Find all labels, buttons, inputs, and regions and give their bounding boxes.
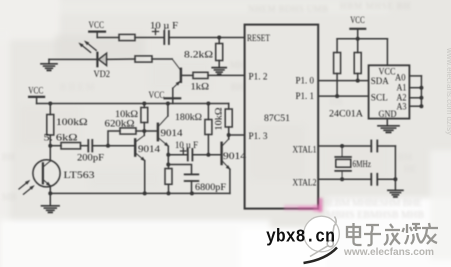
wire R1k to P1.2: [208, 74, 245, 76]
resistor R 1k: [193, 72, 208, 78]
svg-text:MH: MH: [230, 60, 245, 70]
wire Q4 base to R1k: [182, 74, 193, 76]
wire VCC3 stem: [36, 97, 38, 104]
resistor R 5.6k: [61, 143, 81, 149]
junction node A3 tie: [419, 104, 423, 108]
junction node xtal gnd: [393, 177, 397, 181]
junction node P1.3: [227, 133, 231, 137]
wire VCC1 to R: [97, 37, 119, 39]
capacitor C xtal bottom: [371, 174, 377, 185]
watermark logo circle (elecfans pen logo): [304, 216, 340, 263]
junction node 6800p tap: [166, 163, 170, 167]
resistor R pullup SCL: [334, 53, 341, 74]
svg-text:P1. 1: P1. 1: [296, 92, 315, 102]
svg-text:BH: BH: [231, 82, 244, 92]
wire C2 to Q3 base: [192, 154, 220, 156]
resistor R 100k: [47, 115, 54, 136]
resistor R 620k: [120, 128, 136, 134]
wire gnd2 stem: [48, 59, 50, 63]
wire Q2 emitter stem: [167, 146, 169, 155]
svg-text:BHEM: BHEM: [60, 82, 94, 92]
wire 8.2k bottom stem: [218, 61, 220, 68]
svg-text:RESET: RESET: [247, 34, 270, 44]
junction gndrail/6800p: [190, 191, 194, 195]
svg-text:SCL: SCL: [371, 93, 388, 103]
capacitor C2 10uF: [188, 149, 193, 161]
junction node SDA pullup: [356, 79, 360, 83]
wire 100k to LT563: [49, 135, 51, 161]
wire pullup top left: [337, 38, 358, 40]
IC U1 87C51: [245, 25, 319, 209]
svg-text:9014: 9014: [223, 152, 246, 162]
wire xtal cap tie: [394, 146, 396, 179]
wire A1 wire: [409, 87, 421, 89]
wire VCC4 bar to rail: [172, 98, 174, 103]
wire 620k branch: [108, 131, 120, 146]
junction node xtal1: [340, 144, 344, 148]
wire Q1 collector stem: [143, 131, 145, 135]
wire xtal gnd stem: [394, 179, 396, 190]
junction node1 620k/10k/Q1/Q2: [142, 129, 146, 133]
svg-text:620kΩ: 620kΩ: [105, 120, 135, 130]
wire Re top stem: [168, 165, 170, 169]
ground gnd under 8.2k: [212, 68, 226, 75]
wire A3 wire: [409, 105, 421, 107]
wire main gnd stem: [49, 193, 51, 205]
wire SCL wire P1.1: [318, 95, 368, 97]
resistor R emitter unlabeled: [165, 169, 172, 185]
capacitor C1 10uF: [164, 31, 169, 44]
svg-text:www.elecfans.com: www.elecfans.com: [343, 246, 434, 258]
wire pu2 top stem: [357, 39, 359, 53]
artifact pink smudge on 87C51 bottom edge: [284, 205, 320, 211]
svg-text:NHEM BDHS UMB: NHEM BDHS UMB: [248, 4, 328, 14]
watermark text dianzifashaoyou (drawn glyphs): [347, 223, 438, 245]
svg-text:8.2kΩ: 8.2kΩ: [184, 51, 213, 61]
wire node to 5.6k: [50, 145, 61, 147]
junction node reset/8.2k: [217, 36, 221, 40]
svg-text:P1. 2: P1. 2: [249, 72, 268, 82]
junction gndrail/Re: [167, 191, 171, 195]
wire rail to 10k1: [143, 104, 145, 108]
resistor R pullup SDA: [354, 53, 361, 74]
transistor Q1 (9014): [135, 135, 147, 162]
svg-text:9014: 9014: [161, 129, 183, 139]
junction node 100k/5.6k: [48, 144, 52, 148]
svg-text:HB: HB: [330, 97, 343, 107]
svg-text:HEBM MHBESHM BHE: HEBM MHBESHM BHE: [322, 198, 422, 209]
svg-text:6MHz: 6MHz: [353, 160, 372, 170]
svg-text:VD2: VD2: [94, 70, 111, 80]
wire rail end to 10k3: [228, 104, 230, 110]
svg-text:10kΩ: 10kΩ: [214, 108, 224, 131]
wire 10k1 to node1: [143, 123, 145, 132]
svg-text:100kΩ: 100kΩ: [56, 118, 88, 128]
ground gnd left of VD2: [41, 64, 57, 71]
junction rail/100k: [48, 102, 52, 106]
power symbol VCC at Q4 emitter: [149, 91, 181, 101]
wire Q2 collector stem: [167, 104, 169, 117]
wire 200p to Q1 base: [92, 145, 134, 147]
wire Q3 collector stem: [228, 135, 230, 139]
wire 6800p bottom stem: [191, 181, 193, 193]
wire 10k3 to P13 node: [228, 127, 230, 135]
svg-text:24C01A: 24C01A: [329, 110, 363, 120]
wire XTAL1 wire: [318, 145, 371, 147]
wire pullup top right: [358, 38, 388, 40]
svg-text:6800pF: 6800pF: [195, 183, 226, 193]
svg-text:180kΩ: 180kΩ: [175, 113, 202, 123]
svg-text:BM: BM: [398, 152, 412, 162]
svg-text:A3: A3: [397, 103, 407, 113]
transistor Q2 (9014): [158, 116, 171, 148]
svg-text:87C51: 87C51: [264, 114, 290, 124]
junction node 180k bottom: [206, 153, 210, 157]
junction rail/Q2 collector: [166, 102, 170, 106]
wire VCC rail: [37, 103, 229, 105]
power symbol VCC top-left: [89, 21, 106, 32]
wire cx2 to vert: [377, 178, 395, 180]
svg-text:HE: HE: [404, 164, 416, 174]
wire 8.2k top stem: [218, 38, 220, 44]
svg-text:A0: A0: [395, 73, 406, 83]
resistor R unlabeled top: [119, 34, 135, 40]
junction node 620k tap: [106, 144, 110, 148]
svg-text:P1. 3: P1. 3: [249, 132, 268, 142]
wire vcc to 24c01a: [386, 39, 388, 66]
svg-text:200pF: 200pF: [77, 154, 104, 164]
junction node xtal2: [340, 177, 344, 181]
svg-text:MBHS EBMHSB MHB: MBHS EBMHSB MHB: [326, 210, 424, 221]
junction node Q2emitter: [166, 153, 170, 157]
svg-text:VCC: VCC: [89, 21, 105, 31]
wire R to C1: [135, 37, 164, 39]
wire VCC1 stem: [96, 32, 98, 38]
wire A2 wire: [409, 97, 421, 99]
svg-text:5. 6kΩ: 5. 6kΩ: [44, 133, 78, 143]
label plus polarity C2: [181, 148, 187, 154]
junction node vcc pullups: [356, 37, 360, 41]
power symbol VCC mid-left: [28, 86, 44, 97]
wire node down: [167, 155, 169, 165]
wire VCC4 stem: [357, 29, 359, 39]
svg-text:VCC: VCC: [379, 67, 396, 77]
transistor Q3 (9014): [222, 139, 232, 171]
junction rail/10k-1: [142, 102, 146, 106]
wire ground rail: [50, 192, 230, 194]
svg-text:XTAL2: XTAL2: [293, 178, 317, 188]
svg-text:www.elecfans.com dzfsy: www.elecfans.com dzfsy: [445, 47, 451, 135]
wire emitter node to C2: [168, 154, 188, 156]
svg-text:P1. 0: P1. 0: [296, 77, 315, 87]
junction rail/180k: [206, 102, 210, 106]
wire LT563 emitter stem: [49, 186, 51, 194]
wire Re bottom stem: [168, 184, 170, 193]
wire VD2 to R2: [107, 58, 135, 60]
wire rail to 100k: [49, 104, 51, 115]
wire P1.3 wire: [229, 134, 245, 136]
wire 180k to node: [207, 135, 209, 155]
capacitor 6800pF: [185, 174, 199, 181]
resistor R 10k first: [141, 108, 148, 123]
wire XTAL2 wire: [318, 178, 371, 180]
svg-text:XTAL1: XTAL1: [293, 146, 317, 156]
wire 620k to node1: [136, 130, 144, 132]
svg-text:SDA: SDA: [371, 77, 389, 87]
junction gndrail/Q1 emitter: [143, 191, 147, 195]
wire Q3 emitter stem: [229, 169, 231, 193]
wire 6800p branch: [168, 165, 191, 175]
ground gnd under 24C01A: [378, 126, 399, 133]
wire cx1 to vert: [377, 145, 395, 147]
svg-text:9014: 9014: [138, 145, 160, 155]
capacitor C xtal top: [371, 141, 377, 152]
wire rail to 180k: [207, 104, 209, 120]
label plus polarity C1: [153, 29, 159, 35]
IC U2 24C01A: [369, 65, 410, 118]
wire gnd2 to VD2: [49, 58, 96, 60]
wire pu1 bottom stem: [336, 74, 338, 97]
wire R2 to Q4: [152, 58, 172, 60]
wire pu1 top stem: [336, 39, 338, 53]
svg-text:BH: BH: [2, 152, 15, 162]
phototransistor LT563: [19, 160, 60, 195]
svg-text:MB: MB: [2, 192, 16, 202]
wire Q1 emitter stem: [144, 161, 146, 194]
wire 24c01a gnd stem: [386, 119, 388, 126]
ground gnd xtal: [388, 190, 403, 197]
wire node1 to Q2 base: [144, 130, 157, 132]
crystal Y1 6MHz: [335, 146, 351, 179]
svg-text:A1: A1: [397, 83, 407, 93]
svg-text:HBM MHSE BH: HBM MHSE BH: [340, 1, 411, 11]
svg-text:10kΩ: 10kΩ: [115, 110, 138, 120]
wire pu2 bottom stem: [357, 74, 359, 81]
wire 5.6k to 200p: [81, 145, 89, 147]
power symbol VCC top-right: [350, 16, 365, 29]
capacitor C 200pF: [88, 140, 92, 152]
svg-text:VCC: VCC: [28, 86, 43, 96]
junction node A1 tie: [419, 86, 423, 90]
ground main ground: [42, 206, 60, 213]
svg-text:LT563: LT563: [64, 171, 95, 181]
svg-text:1kΩ: 1kΩ: [191, 82, 210, 92]
wire C1 to RESET: [169, 37, 245, 39]
svg-text:ybx8.cn: ybx8.cn: [266, 227, 335, 247]
svg-text:10 µ F: 10 µ F: [175, 141, 198, 151]
artifact magenta streak at box corner: [314, 198, 323, 212]
svg-text:VCC: VCC: [350, 16, 365, 26]
wire Q4 emitter stem: [172, 88, 174, 98]
diode VD2 (LED): [77, 39, 106, 66]
resistor R 8.2k: [216, 44, 223, 61]
svg-text:VCC: VCC: [149, 91, 165, 101]
wire SDA wire P1.0: [318, 80, 368, 82]
junction node SCL pullup: [335, 94, 339, 98]
resistor R 10k third: [225, 109, 232, 127]
resistor R unlabeled vd2: [135, 56, 152, 62]
junction node A2 tie: [419, 96, 423, 100]
wire A tie vertical: [420, 76, 422, 106]
junction gndrail/LT563: [48, 191, 52, 195]
wire A0 wire: [409, 75, 421, 77]
resistor R 180k: [205, 120, 212, 135]
transistor Q4 (PNP, LED driver): [172, 59, 182, 88]
svg-text:10 µ F: 10 µ F: [150, 21, 178, 31]
